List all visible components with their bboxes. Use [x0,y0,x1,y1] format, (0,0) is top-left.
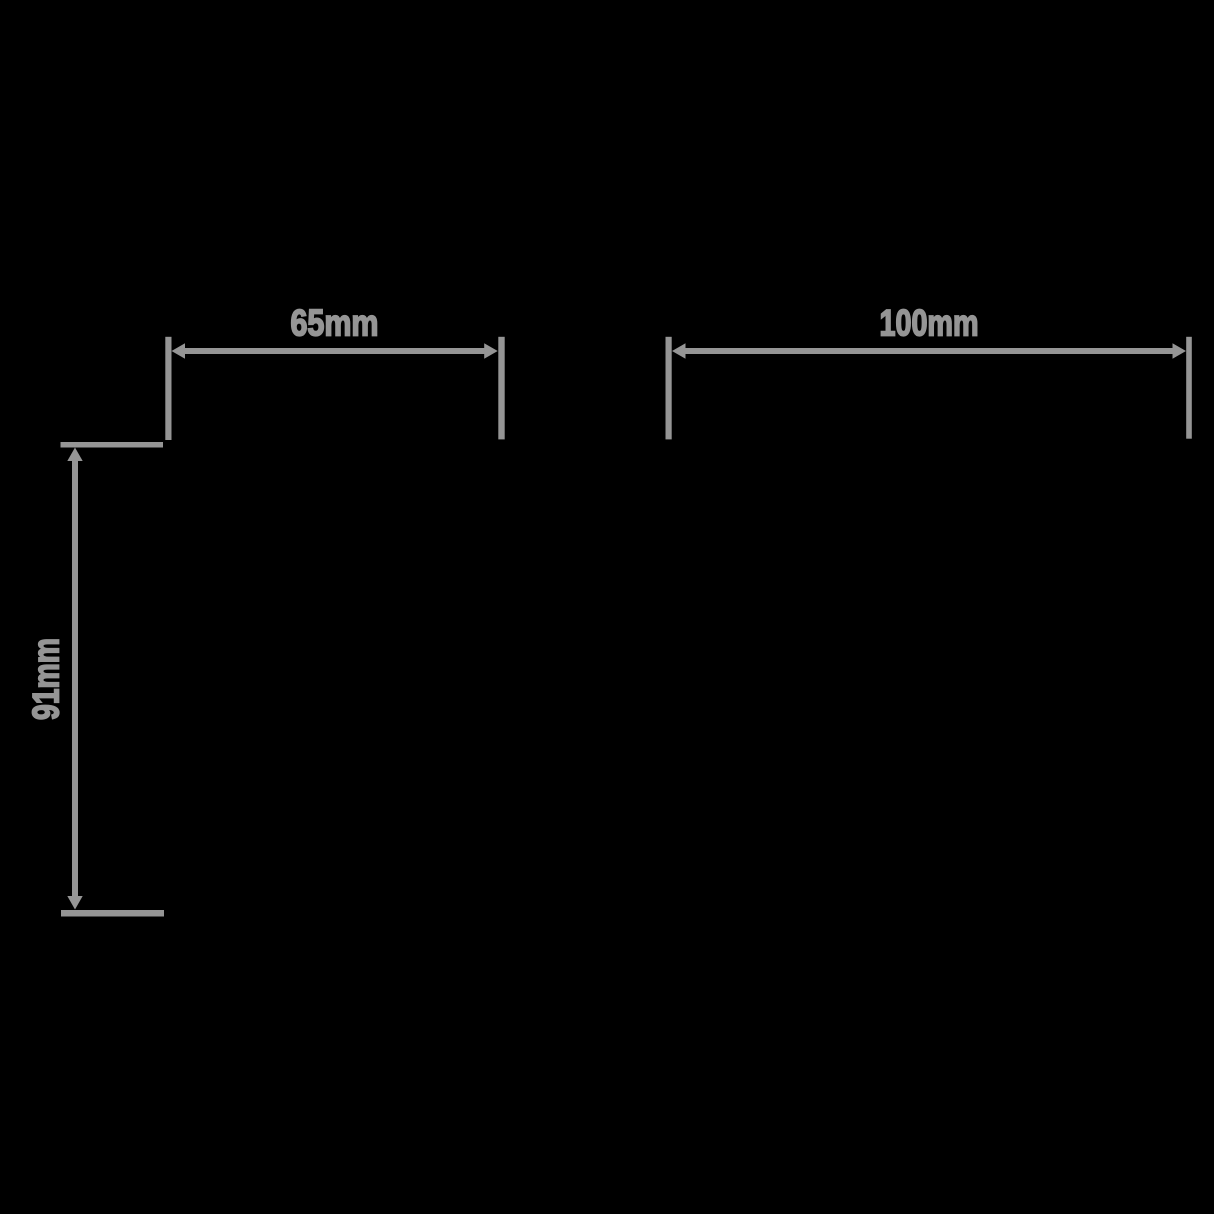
svg-text:91mm: 91mm [26,638,67,720]
svg-text:65mm: 65mm [291,303,379,344]
svg-text:100mm: 100mm [880,303,979,344]
